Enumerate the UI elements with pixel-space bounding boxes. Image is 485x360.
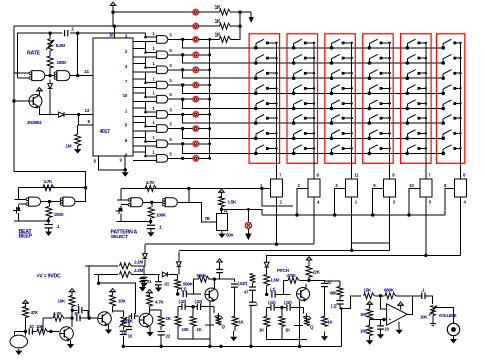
resistor R7 4.7K (43, 179, 55, 191)
wire r26 bot (192, 326, 194, 339)
gate U5A nand (117, 198, 143, 207)
wire c15 down (252, 290, 254, 302)
svg-text:1K: 1K (215, 19, 222, 25)
label VR4 left (373, 183, 376, 188)
junction bus9 (208, 157, 211, 160)
svg-text:SELECT: SELECT (111, 234, 129, 240)
wire Q6 coll (112, 306, 114, 312)
svg-text:22K: 22K (313, 270, 321, 275)
junction Q5 coll (70, 316, 73, 319)
switch S2-6 (292, 115, 315, 125)
junction trig2 tee (97, 282, 100, 285)
junction rail2 (238, 11, 241, 14)
junction v1 trig1 (88, 316, 91, 319)
switch S4-2 (368, 54, 391, 64)
wire U5B out (177, 188, 189, 202)
wire gate link 6 (145, 117, 147, 127)
wire c14 down (233, 287, 235, 316)
wire res1M top (77, 125, 79, 134)
junction L0 d (407, 213, 410, 216)
capacitor C25 .1 (421, 288, 425, 300)
junction v4 bus (298, 345, 301, 348)
svg-text:PITCH: PITCH (277, 268, 289, 273)
wire VR1 left pin (189, 187, 271, 189)
wire fb v3 (194, 279, 199, 294)
ground C4 (140, 280, 147, 287)
connector J1 (193, 10, 198, 15)
svg-text:(.02): (.02) (179, 299, 187, 304)
capacitor C4 (141, 266, 148, 281)
junction L0 c (371, 213, 374, 216)
wire bus L3 (267, 254, 461, 256)
resistor R24v (250, 274, 256, 283)
wire U3-8 elbow (133, 138, 157, 142)
wire Q5 coll (71, 306, 73, 327)
ground Q7 (146, 326, 153, 336)
ground v3 (230, 331, 237, 341)
net arrow down right (240, 12, 254, 40)
gate U2B nand (54, 71, 70, 81)
svg-text:RATE: RATE (27, 51, 41, 57)
junction Q1 base (12, 99, 15, 102)
switch S3-7 (330, 130, 353, 140)
wire bus L1 (145, 243, 314, 245)
junction VR7 top (220, 208, 223, 211)
wire osc feedback top (17, 33, 50, 70)
wire PATA left (120, 188, 122, 200)
wire PATA top (121, 187, 189, 189)
label col3 net (354, 173, 359, 178)
power arrow Q5 (69, 289, 76, 296)
resistor R36 680K (384, 288, 397, 299)
junction gnd bus l (122, 345, 125, 348)
diode D4 (176, 262, 181, 275)
switch PATTERN A (115, 206, 123, 222)
junction v3 bus2 (219, 345, 222, 348)
wire diode node vert (49, 97, 51, 115)
svg-text:7B: 7B (205, 216, 210, 221)
pattern column box 6 (437, 34, 465, 164)
wire VR7 left pin (189, 202, 217, 222)
ground C5 (155, 285, 162, 292)
wire gateB out (70, 69, 93, 76)
transistor Q1 2N3904 (27, 95, 42, 126)
wire r29 node (308, 277, 310, 280)
resistor R17 10K (58, 296, 76, 307)
label mic stage (0, 0, 1, 1)
wire pot bot (432, 316, 434, 321)
resistor R13 2.2M (120, 268, 144, 277)
wire BEEP bottom (14, 220, 48, 222)
wire U3-5 elbow (133, 93, 157, 97)
diode D2 (59, 112, 64, 117)
connector JR1 (193, 37, 198, 42)
resistor R31 68K (325, 281, 344, 297)
switch S2-8 (292, 145, 315, 155)
wire Q1 base (14, 100, 29, 102)
switch S6-6 (441, 115, 461, 125)
switch S6-5 (441, 100, 461, 110)
connector JR2 (193, 52, 198, 57)
wire column bus 3 (351, 43, 353, 179)
pattern column box 4 (363, 34, 394, 164)
svg-text:4.7K: 4.7K (146, 180, 155, 185)
labels gate7 (153, 120, 173, 127)
potentiometer VR1 (271, 179, 283, 197)
capacitor C9 (120, 327, 133, 338)
wire matrix row 2 (183, 55, 444, 63)
wire v4 right (309, 280, 325, 282)
wire VR6 left pin (445, 188, 455, 215)
svg-text:100K: 100K (156, 213, 167, 218)
switch S3-8 (330, 145, 353, 155)
svg-text:22: 22 (166, 334, 171, 339)
potentiometer VR3 (346, 179, 358, 197)
svg-text:15K: 15K (364, 288, 373, 293)
wire PATA bottom (117, 221, 151, 223)
wire row1b (198, 11, 219, 13)
gate U4B nand (60, 197, 75, 206)
switch S4-3 (368, 70, 391, 80)
capacitor C1 .1 (65, 27, 75, 37)
capacitor C15 (244, 283, 256, 295)
wire bus L2 (179, 249, 390, 251)
junction BEEP cap (47, 219, 50, 222)
resistor R19 trim (119, 317, 133, 327)
wire column bus 4 (389, 43, 391, 179)
resistor R10 100K (148, 207, 167, 218)
junction bus2 (208, 53, 211, 56)
wire r33 bot (281, 326, 283, 339)
gate U3-6 AND (157, 111, 168, 119)
wire U3-7 inB (133, 130, 157, 132)
wire v2 in2 (122, 316, 132, 335)
transistor Q7 (139, 313, 153, 328)
gate U4A nand (15, 197, 41, 206)
junction U5 mid (150, 201, 153, 204)
wire row9 tobus (198, 157, 209, 159)
potentiometer VR5 (420, 179, 432, 197)
vertical bus right of connectors (209, 39, 211, 158)
pattern column box 5 (401, 34, 432, 164)
ground BEEP (45, 228, 52, 236)
wire v1 bus conn (0, 0, 1, 1)
wire column bus 6 (460, 43, 462, 179)
pattern column box 1 (249, 34, 280, 164)
wire VR1 left drop (262, 188, 293, 205)
switch S3-4 (330, 85, 353, 95)
label VR4 bot (393, 200, 396, 205)
wire v4 emit (299, 301, 301, 347)
connector J2 (193, 24, 198, 29)
capacitor C7 (74, 311, 80, 321)
wire matrix row 3 (183, 70, 444, 78)
junction L0 b (333, 213, 336, 216)
diode D5 (162, 272, 167, 277)
junction gates (48, 74, 51, 77)
switch S4-1 (368, 39, 391, 49)
svg-text:50K: 50K (226, 233, 235, 238)
junction gateB fb (76, 74, 79, 77)
junction v3 bus (208, 345, 211, 348)
wire r30 r (300, 279, 309, 281)
junction U3-6 in (144, 111, 147, 114)
svg-text:(.02): (.02) (195, 299, 203, 304)
junction L0 a (295, 213, 298, 216)
resistor R27 1K (232, 316, 245, 326)
wire v2 out (150, 310, 162, 316)
wire BEEP left (18, 188, 20, 200)
capacitor C2 .1 (44, 218, 60, 229)
wire fb vert v1 (42, 318, 44, 331)
svg-text:470K: 470K (287, 273, 297, 278)
wire r32 bot (266, 326, 268, 339)
transistor Q9 fet (214, 307, 226, 329)
label col6 net (463, 173, 466, 178)
transistor Q6 (98, 312, 112, 327)
switch S1-4 (254, 85, 278, 95)
switch S1-6 (254, 115, 278, 125)
wire res-junction (49, 68, 51, 75)
gate U5B nand (163, 198, 178, 207)
switch S4-4 (368, 85, 391, 95)
wire row2c (232, 25, 241, 27)
pattern column box 2 (287, 34, 318, 164)
svg-text:10K: 10K (118, 299, 127, 304)
labels gate2 (153, 46, 173, 53)
svg-text:BEEP: BEEP (19, 233, 33, 239)
switch S6-4 (441, 85, 461, 95)
ground PATTERN A (147, 229, 154, 237)
junction row2 bus (238, 25, 241, 28)
svg-text:10K: 10K (360, 312, 368, 317)
svg-text:10K: 10K (58, 299, 67, 304)
resistor R16 4.7K fb (53, 311, 65, 321)
wire v4 base top (266, 286, 268, 295)
wire mic top (25, 318, 27, 331)
wire noninv (370, 319, 387, 321)
switch S5-3 (406, 70, 427, 80)
capacitor C7b (77, 303, 82, 314)
svg-text:14: 14 (84, 69, 89, 74)
svg-text:4.7K: 4.7K (155, 300, 164, 305)
svg-text:4017: 4017 (100, 129, 111, 135)
capacitor C4b (139, 278, 152, 285)
wire r15-q5 (48, 331, 59, 333)
ground Q5 (67, 340, 74, 349)
junction opamp in (379, 294, 382, 297)
resistor R29 22K (306, 260, 321, 277)
wire trig2 h2 (133, 273, 161, 275)
wire VR4 bottom (389, 197, 391, 250)
junction U3-7 in (144, 125, 147, 128)
label PITCH (0, 0, 1, 1)
junction tt2 mid (280, 306, 283, 309)
transistor Q8 (205, 288, 218, 302)
diode D1 vert (48, 79, 53, 97)
label VR2 left (298, 183, 301, 188)
capacitor C10 (124, 313, 139, 323)
svg-text:(.1): (.1) (270, 287, 276, 292)
capacitor C5 (155, 274, 170, 286)
wire row1 tobus (198, 38, 209, 40)
wire out top (413, 295, 422, 297)
potentiometer VR6 (455, 179, 467, 197)
capacitor C21 out (331, 301, 344, 309)
resistor R12 2.2M (120, 260, 144, 269)
wire tt2 q11 (294, 325, 303, 327)
wire U3-5 out (168, 98, 193, 100)
wire v1 to bus (122, 336, 124, 346)
connector JACK out (447, 323, 459, 335)
labels gate5 (153, 91, 173, 98)
potentiometer VR2 (308, 179, 320, 197)
svg-text:13: 13 (85, 108, 90, 113)
capacitor C11 (158, 326, 171, 338)
wire v4 trig (266, 255, 268, 262)
svg-text:+: + (388, 317, 391, 323)
switch S6-8 (441, 145, 461, 155)
switch S2-4 (292, 85, 315, 95)
wire gnd bus left (0, 0, 1, 1)
label BEEP (19, 229, 33, 239)
wire fb v3b (210, 278, 214, 280)
wire v2 to bus (160, 335, 162, 346)
junction bus6 (208, 113, 211, 116)
wire tt left (177, 307, 179, 317)
wire U3-2 elbow (133, 49, 157, 53)
svg-text:1.5M: 1.5M (271, 278, 280, 283)
junction PATA cap (149, 220, 152, 223)
wire r37-r38 (369, 319, 371, 326)
wire U3-6 out (168, 113, 193, 115)
wire U3-7 out (168, 128, 193, 130)
resistor R38 10K (360, 326, 373, 336)
junction VR5 L3 (424, 254, 427, 257)
svg-text:560K: 560K (197, 273, 208, 278)
op-amp U6 (387, 304, 408, 325)
label VR3 left (335, 183, 338, 188)
capacitor C22 (268, 300, 276, 311)
wire c12-q (187, 293, 201, 295)
junction L2 a (350, 249, 353, 252)
svg-text:(.1): (.1) (331, 304, 337, 309)
wire osc cap right (70, 32, 146, 34)
svg-text:100K: 100K (54, 212, 65, 217)
switch S6-1 (441, 39, 461, 49)
wire U3-1 elbow (146, 33, 157, 37)
wire column bus 1 (276, 43, 278, 179)
switch S5-6 (406, 115, 427, 125)
wire r34 bot (0, 0, 1, 1)
svg-text:68K: 68K (330, 291, 338, 296)
labels gate9 (153, 150, 173, 157)
wire row1c (232, 11, 252, 13)
capacitor C17 (179, 299, 187, 310)
junction U4 mid (48, 200, 51, 203)
wire row8 tobus (198, 143, 209, 145)
svg-text:100K: 100K (57, 60, 68, 65)
wire c7-q6 (81, 317, 98, 319)
junction row3 (181, 68, 184, 71)
label VR3 bot (355, 200, 358, 205)
wire U3-8 out (168, 143, 193, 145)
svg-text:+V = 9VDC: +V = 9VDC (37, 274, 61, 280)
resistor R3 1K (215, 32, 232, 42)
switch S2-1 (292, 39, 315, 49)
wire bus up right (340, 309, 342, 347)
gate U3-8 AND (157, 140, 168, 148)
wire v3 trig (177, 274, 179, 280)
switch S1-8 (254, 145, 278, 155)
wire branch upper (72, 310, 88, 318)
junction row7 (181, 127, 184, 130)
connector JR8 (193, 141, 198, 146)
wire tt2 h (267, 307, 304, 309)
wire trig1 drop (88, 266, 90, 318)
IC U1 4017 body (93, 38, 133, 156)
wire U1 pin16 (109, 25, 116, 39)
U1 output pin numbers (123, 33, 128, 157)
switch S4-6 (368, 115, 391, 125)
wire matrix row 6 (183, 114, 444, 123)
resistor R23 PITCH (197, 273, 211, 282)
wire D2-IC (65, 108, 93, 115)
svg-text:4.7K: 4.7K (53, 311, 62, 316)
ground VR8 (430, 321, 436, 326)
capacitor C6 (29, 324, 34, 335)
wire row3b (198, 38, 219, 40)
svg-text:8.2M: 8.2M (56, 43, 65, 48)
wire row1 (113, 11, 193, 13)
wire v3 bots (178, 338, 210, 340)
connector JR3 (193, 67, 198, 72)
resistor R20 4.7K (147, 295, 165, 306)
capacitor C23 (284, 300, 292, 311)
wire fb h v1 (43, 317, 53, 319)
wire v3 base (177, 289, 179, 294)
gate U3-3 AND (157, 66, 168, 74)
svg-text:1M: 1M (66, 144, 72, 149)
labels gate6 (153, 106, 173, 113)
wire Q1 emitter (39, 107, 58, 115)
junction bus3 (208, 68, 211, 71)
labels gate8 (153, 135, 173, 142)
wire matrix row 7 (183, 129, 444, 139)
svg-text:47K: 47K (31, 310, 40, 315)
svg-text:1K: 1K (215, 32, 222, 38)
potentiometer VR8 vol (420, 306, 457, 320)
svg-text:(.047): (.047) (238, 281, 248, 286)
resistor R18 10K (110, 295, 127, 306)
svg-text:2N3904: 2N3904 (27, 120, 42, 125)
wire VR6 bottom (460, 197, 462, 255)
resistor R15 10K (36, 324, 48, 335)
wire row4 tobus (198, 84, 209, 86)
wire tt q9 (205, 324, 214, 326)
switch S3-6 (330, 115, 353, 125)
wire c20 down (324, 287, 326, 317)
junction row9 (181, 157, 184, 160)
ground C4b (139, 286, 146, 292)
power arrow VR7 (218, 189, 225, 198)
wire V2 coll (149, 306, 151, 314)
wire row3 tobus (198, 69, 209, 71)
power arrow Q6 (109, 289, 116, 296)
wire pin8 stub (79, 115, 93, 126)
wire U3-6 inB (133, 116, 157, 118)
junction v3 base (176, 292, 179, 295)
